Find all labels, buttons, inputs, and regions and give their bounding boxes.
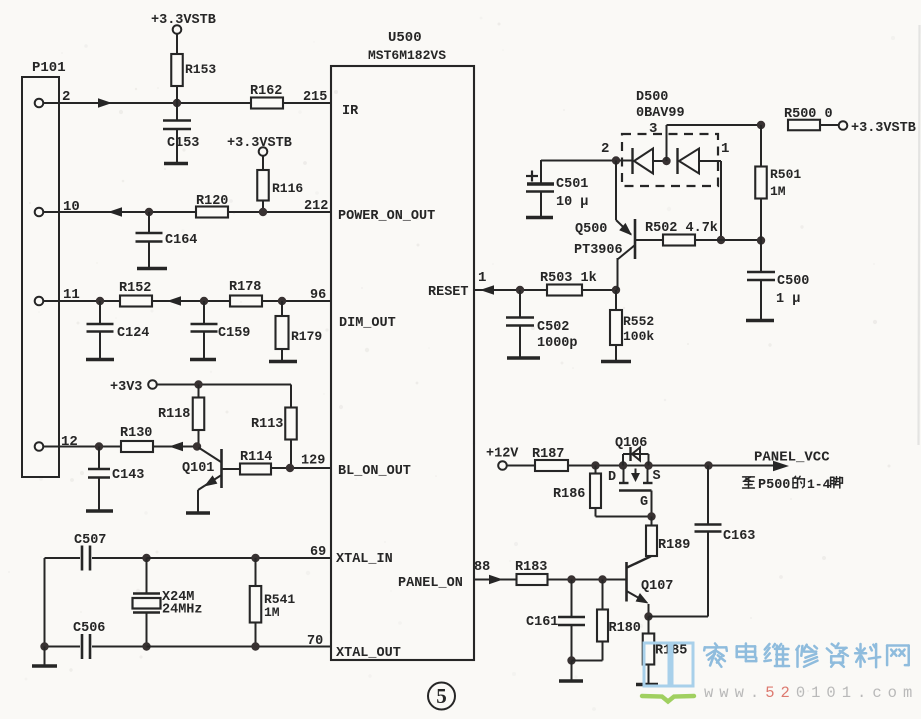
node R501/C500 junction — [757, 236, 765, 244]
capacitor C124 — [87, 301, 150, 358]
connector P101 — [22, 77, 59, 477]
pin 1 (RESET) — [478, 270, 486, 286]
svg-text:24MHz: 24MHz — [162, 603, 203, 618]
svg-text:215: 215 — [303, 90, 327, 105]
svg-text:R501: R501 — [770, 167, 801, 182]
svg-text:R179: R179 — [291, 329, 322, 344]
node R186 top junction — [591, 461, 599, 469]
node R179 junction — [278, 297, 286, 305]
resistor R116 — [257, 170, 303, 212]
svg-text:R120: R120 — [196, 194, 228, 209]
svg-text:R503 1k: R503 1k — [540, 271, 597, 286]
svg-text:IR: IR — [342, 104, 359, 119]
svg-text:212: 212 — [304, 199, 328, 214]
resistor R179 — [276, 301, 323, 360]
svg-text:C501: C501 — [556, 177, 588, 192]
ground C161 — [559, 661, 583, 682]
pin 69 — [310, 545, 326, 560]
pin 96 — [310, 288, 326, 303]
resistor R552 100k — [610, 290, 654, 360]
resistor R153 — [171, 54, 216, 103]
svg-text:P500: P500 — [758, 478, 790, 493]
wire DIM_OUT row — [44, 300, 332, 302]
svg-text:129: 129 — [301, 454, 325, 469]
resistor R118 — [158, 385, 204, 447]
capacitor C164 — [136, 212, 198, 267]
node R118 top junction — [194, 380, 202, 388]
svg-text:R162: R162 — [250, 84, 282, 99]
transistor Q107 — [627, 557, 674, 617]
svg-text:PANEL_VCC: PANEL_VCC — [754, 450, 830, 466]
resistor R186 — [553, 466, 652, 517]
capacitor C501 10u electrolytic — [526, 160, 588, 217]
node R116 junction — [259, 208, 267, 216]
svg-text:R153: R153 — [185, 62, 216, 77]
power +3.3VSTB (R116) — [227, 136, 292, 170]
node R113/R114 junction — [286, 464, 294, 472]
node C159 junction — [200, 297, 208, 305]
capacitor C161 — [526, 580, 585, 661]
label MST6M182VS — [368, 48, 446, 63]
crystal X24M 24MHz — [133, 558, 203, 647]
svg-text:R187: R187 — [532, 447, 564, 462]
svg-text:+3.3VSTB: +3.3VSTB — [851, 121, 916, 136]
resistor R185 — [643, 617, 688, 685]
resistor R113 — [251, 408, 297, 468]
node R180 junction — [598, 575, 606, 583]
resistor R152 — [119, 281, 152, 307]
svg-text:C506: C506 — [73, 621, 105, 636]
svg-text:S: S — [653, 469, 661, 484]
svg-text:R116: R116 — [272, 181, 303, 196]
node Q107 emitter junction — [644, 612, 652, 620]
svg-text:R502 4.7k: R502 4.7k — [645, 221, 718, 236]
ground Q101 emitter — [186, 511, 210, 514]
svg-text:www.520101.com: www.520101.com — [704, 684, 918, 702]
pin 215 — [303, 90, 327, 105]
node C164 junction — [145, 208, 153, 216]
node gate/R189 junction — [647, 512, 655, 520]
svg-text:XTAL_OUT: XTAL_OUT — [336, 646, 401, 661]
svg-text:1: 1 — [478, 270, 486, 286]
capacitor C143 — [88, 447, 144, 511]
ground C500 — [746, 319, 774, 322]
svg-text:88: 88 — [474, 560, 490, 575]
svg-text:R130: R130 — [120, 426, 152, 441]
resistor R501 1M — [755, 125, 801, 241]
svg-text:R178: R178 — [229, 280, 261, 295]
svg-text:C159: C159 — [218, 326, 250, 341]
signal arrow left (BL_ON_OUT) — [169, 442, 183, 452]
resistor R187 — [532, 447, 568, 471]
resistor R114 — [222, 450, 332, 475]
wire RESET row — [474, 289, 616, 291]
diode D500a (left) — [620, 148, 666, 174]
svg-text:R552: R552 — [623, 314, 654, 329]
wire XTAL_OUT row — [147, 646, 332, 648]
ground C164 — [137, 267, 167, 270]
svg-text:BL_ON_OUT: BL_ON_OUT — [338, 464, 411, 479]
resistor R503 1k — [540, 271, 597, 296]
svg-text:+3.3VSTB: +3.3VSTB — [151, 13, 216, 28]
label U500 — [388, 30, 422, 46]
capacitor C502 — [506, 290, 578, 357]
pin name PANEL_ON — [398, 576, 463, 591]
page number 5 — [428, 683, 455, 710]
ground R179 — [269, 360, 297, 363]
transistor Q500 PT3906 — [574, 161, 663, 291]
svg-text:0BAV99: 0BAV99 — [636, 106, 685, 121]
svg-text:R152: R152 — [119, 281, 151, 296]
node R118/Q101 collector junction — [193, 442, 201, 450]
ground C143 — [86, 509, 113, 512]
svg-text:69: 69 — [310, 545, 326, 560]
pin name BL_ON_OUT — [338, 464, 411, 479]
svg-text:R118: R118 — [158, 407, 190, 422]
resistor R180 — [572, 580, 641, 661]
pin 212 — [304, 199, 328, 214]
node 3 junction — [662, 157, 670, 165]
svg-text:1000p: 1000p — [537, 336, 578, 351]
capacitor C506 — [45, 621, 147, 659]
pin 129 — [301, 454, 325, 469]
node C502 junction — [516, 286, 524, 294]
P101 pin 12 — [35, 434, 78, 451]
pin name DIM_OUT — [339, 316, 396, 331]
svg-text:POWER_ON_OUT: POWER_ON_OUT — [338, 209, 435, 224]
resistor R178 — [229, 280, 262, 307]
svg-text:+3V3: +3V3 — [110, 380, 142, 395]
svg-text:10 μ: 10 μ — [556, 195, 588, 210]
ground C159 — [190, 358, 216, 361]
node D500b/R502 junction — [717, 236, 725, 244]
wire IR row — [44, 102, 332, 104]
diode D500b (right) — [678, 141, 730, 174]
wire POWER_ON_OUT row — [44, 211, 332, 213]
pin name POWER_ON_OUT — [338, 209, 435, 224]
D500 dashed package outline — [622, 134, 718, 186]
svg-text:RESET: RESET — [428, 285, 469, 300]
wire D500b anode down — [720, 161, 722, 240]
node C143 junction — [95, 442, 103, 450]
wire XTAL left vertical — [44, 558, 46, 647]
node C163 top junction — [704, 461, 712, 469]
svg-text:MST6M182VS: MST6M182VS — [368, 48, 446, 63]
svg-text:R186: R186 — [553, 487, 585, 502]
svg-text:Q500: Q500 — [575, 222, 607, 237]
wire pin 3 to +3.3VSTB rail — [667, 125, 762, 161]
node C161 junction — [567, 575, 575, 583]
resistor R541 1M — [250, 558, 296, 647]
svg-text:R183: R183 — [515, 560, 547, 575]
pin 70 — [307, 634, 323, 649]
ground C502 — [507, 356, 540, 359]
node X24M bottom junction — [142, 642, 150, 650]
power +3.3VSTB (top) — [151, 13, 216, 54]
node XTAL ground junction — [40, 642, 48, 650]
svg-text:C124: C124 — [117, 326, 149, 341]
ground C153 — [164, 162, 188, 165]
resistor R502 4.7k — [645, 221, 761, 246]
P101 pin 2 — [35, 89, 71, 107]
wire +3V3 rail — [157, 385, 291, 408]
wire BL_ON_OUT row (left) — [44, 446, 198, 448]
svg-text:R500 0: R500 0 — [784, 107, 833, 122]
svg-text:C161: C161 — [526, 615, 558, 630]
pin name IR — [342, 104, 359, 119]
svg-text:U500: U500 — [388, 30, 422, 46]
PANEL_VCC output arrow — [754, 450, 830, 472]
svg-text:D: D — [608, 470, 616, 485]
resistor R183 — [515, 560, 548, 585]
watermark book logo — [642, 643, 694, 702]
signal arrow left (RESET) — [480, 285, 494, 295]
capacitor C153 — [163, 103, 199, 162]
svg-text:C502: C502 — [537, 320, 569, 335]
node X24M top junction — [142, 554, 150, 562]
capacitor C500 1u — [747, 241, 809, 320]
MOSFET Q106 — [608, 436, 661, 517]
svg-text:R113: R113 — [251, 417, 283, 432]
svg-text:C500: C500 — [777, 274, 809, 289]
svg-text:C164: C164 — [165, 233, 197, 248]
diode D500 BAV99 labels — [636, 90, 685, 137]
svg-text:5: 5 — [436, 684, 447, 708]
svg-text:R189: R189 — [658, 538, 690, 553]
power +3V3 — [110, 380, 157, 395]
svg-text:1: 1 — [721, 141, 729, 157]
power +3.3VSTB (right) — [839, 121, 916, 136]
signal arrow left (DIM_OUT) — [167, 296, 181, 306]
svg-text:D500: D500 — [636, 90, 668, 105]
ground C501 — [526, 216, 553, 219]
watermark url www.520101.com — [704, 684, 918, 702]
pin name RESET — [428, 285, 469, 300]
wire node2 horizontal — [541, 160, 632, 162]
wire emitter to C163 — [649, 616, 709, 618]
svg-text:PT3906: PT3906 — [574, 243, 623, 258]
node R552/Q500 collector junction — [612, 286, 620, 294]
capacitor C159 — [191, 301, 251, 358]
svg-text:R114: R114 — [240, 450, 272, 465]
svg-text:100k: 100k — [623, 329, 654, 344]
svg-text:70: 70 — [307, 634, 323, 649]
capacitor C163 — [695, 466, 756, 617]
svg-text:P101: P101 — [32, 60, 66, 76]
label P101 — [32, 60, 66, 76]
signal arrow right (PANEL_ON) — [489, 575, 503, 585]
svg-text:+12V: +12V — [486, 447, 519, 462]
wire PANEL_ON row — [474, 560, 627, 580]
watermark text 家电维修资料网 — [704, 644, 909, 668]
svg-text:C163: C163 — [723, 529, 755, 544]
svg-text:PANEL_ON: PANEL_ON — [398, 576, 463, 591]
node C124 junction — [96, 297, 104, 305]
pin name XTAL_OUT — [336, 646, 401, 661]
svg-text:G: G — [640, 495, 648, 510]
IC U500 MST6M182VS — [331, 66, 474, 660]
node R500/R501 junction — [757, 121, 765, 129]
svg-text:Q101: Q101 — [182, 461, 214, 476]
svg-text:Q107: Q107 — [641, 579, 673, 594]
P101 pin 11 — [35, 287, 80, 305]
svg-text:96: 96 — [310, 288, 326, 303]
svg-text:R180: R180 — [609, 621, 641, 636]
wire PANEL_VCC row — [507, 465, 779, 467]
transistor Q101 — [182, 448, 222, 513]
ground R185 — [636, 683, 658, 686]
svg-text:1M: 1M — [264, 605, 280, 620]
pin name XTAL_IN — [336, 552, 393, 567]
node R541 bottom junction — [251, 642, 259, 650]
resistor R189 — [628, 517, 691, 568]
scan edge artifact — [919, 25, 920, 445]
svg-text:12: 12 — [61, 434, 78, 450]
ground C124 — [86, 358, 114, 361]
node R541 top junction — [251, 554, 259, 562]
resistor R162 — [250, 84, 283, 109]
signal arrow right (IR) — [98, 98, 112, 108]
ground XTAL — [32, 647, 57, 667]
resistor R120 — [196, 194, 228, 218]
svg-text:C143: C143 — [112, 468, 144, 483]
P101 pin 10 — [35, 199, 80, 216]
signal arrow left (POWER_ON_OUT) — [108, 207, 122, 217]
svg-text:1-4: 1-4 — [807, 477, 831, 492]
node IR/R153/C153 junction — [173, 99, 181, 107]
power +12V — [486, 447, 519, 470]
label destination (to P500 pins 1-4) — [743, 476, 843, 493]
resistor R130 — [120, 426, 153, 452]
svg-text:XTAL_IN: XTAL_IN — [336, 552, 393, 567]
resistor R500 0 — [784, 107, 839, 130]
svg-text:2: 2 — [601, 141, 609, 157]
capacitor C507 — [45, 533, 147, 571]
node 2 (C501/Q500 emitter/D500a) — [601, 141, 620, 165]
node C161/R180 bottom junction — [567, 656, 575, 664]
svg-text:1M: 1M — [770, 184, 786, 199]
svg-text:1 μ: 1 μ — [776, 292, 800, 307]
wire XTAL_IN row — [147, 557, 332, 559]
svg-text:DIM_OUT: DIM_OUT — [339, 316, 396, 331]
ground R552 — [601, 360, 631, 363]
